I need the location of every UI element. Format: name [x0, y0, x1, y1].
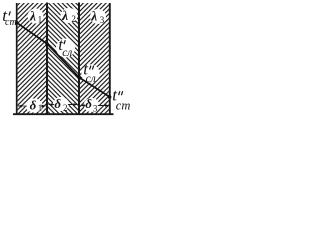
label t''st (right surface temperature) [112, 86, 130, 113]
wall layer 3 hatch [80, 3, 109, 114]
label t'sl (first interface temperature) [58, 35, 72, 59]
bottom base line [13, 113, 114, 115]
label lambda1 [29, 9, 42, 25]
white patch for lambda3 [90, 9, 106, 24]
svg-text:3: 3 [93, 104, 98, 114]
white patch for delta2 [53, 97, 69, 111]
label delta3 [85, 96, 98, 113]
node t''st dot [108, 95, 112, 99]
wall boundary line 2 [46, 3, 48, 116]
dimension arrow delta1 [18, 105, 46, 108]
node t'st dot [15, 21, 18, 24]
wall layer 2 hatch [48, 3, 78, 114]
svg-text:2: 2 [63, 103, 68, 113]
white re-patch for delta2 label [54, 97, 68, 110]
white re-patch for delta3 label [85, 99, 98, 111]
svg-text:3: 3 [100, 15, 105, 25]
svg-text:1: 1 [38, 103, 43, 113]
svg-text:ст: ст [5, 17, 17, 28]
svg-text:δ: δ [54, 96, 61, 111]
label delta1 [30, 97, 43, 113]
svg-text:сл: сл [86, 73, 96, 85]
label t'st (left surface temperature) [2, 6, 16, 28]
node t''sl dot [77, 76, 81, 80]
temperature polyline [17, 23, 110, 97]
svg-text:λ: λ [90, 8, 97, 23]
white patch for lambda2 [61, 8, 78, 23]
dimension arrow delta3 [80, 104, 109, 107]
white patch for t'sl label [56, 39, 75, 58]
white patch for lambda1 [28, 9, 44, 24]
white re-patch for delta1 label [27, 99, 41, 112]
svg-text:δ: δ [30, 97, 37, 112]
svg-text:λ: λ [61, 8, 68, 23]
node t'sl dot [45, 42, 49, 46]
svg-text:ст: ст [116, 98, 131, 112]
wall boundary line 1 (left surface) [16, 3, 18, 115]
wall boundary line 3 [78, 3, 80, 116]
white patch for t''sl label [81, 64, 99, 82]
svg-text:2: 2 [71, 14, 76, 24]
white patch for delta3 [84, 98, 100, 112]
label lambda3 [90, 8, 105, 25]
label lambda2 [61, 8, 76, 24]
wall boundary line 4 (right surface) [109, 3, 111, 115]
dimension arrow delta2 [48, 103, 77, 106]
white patch for delta1 [26, 99, 43, 113]
svg-text:1: 1 [38, 15, 43, 25]
svg-text:δ: δ [85, 96, 92, 111]
label delta2 [54, 96, 67, 113]
label t''sl (second interface temperature) [83, 60, 96, 85]
svg-text:λ: λ [29, 9, 36, 24]
svg-text:сл: сл [62, 47, 72, 59]
wall layer 1 hatch [18, 3, 47, 114]
